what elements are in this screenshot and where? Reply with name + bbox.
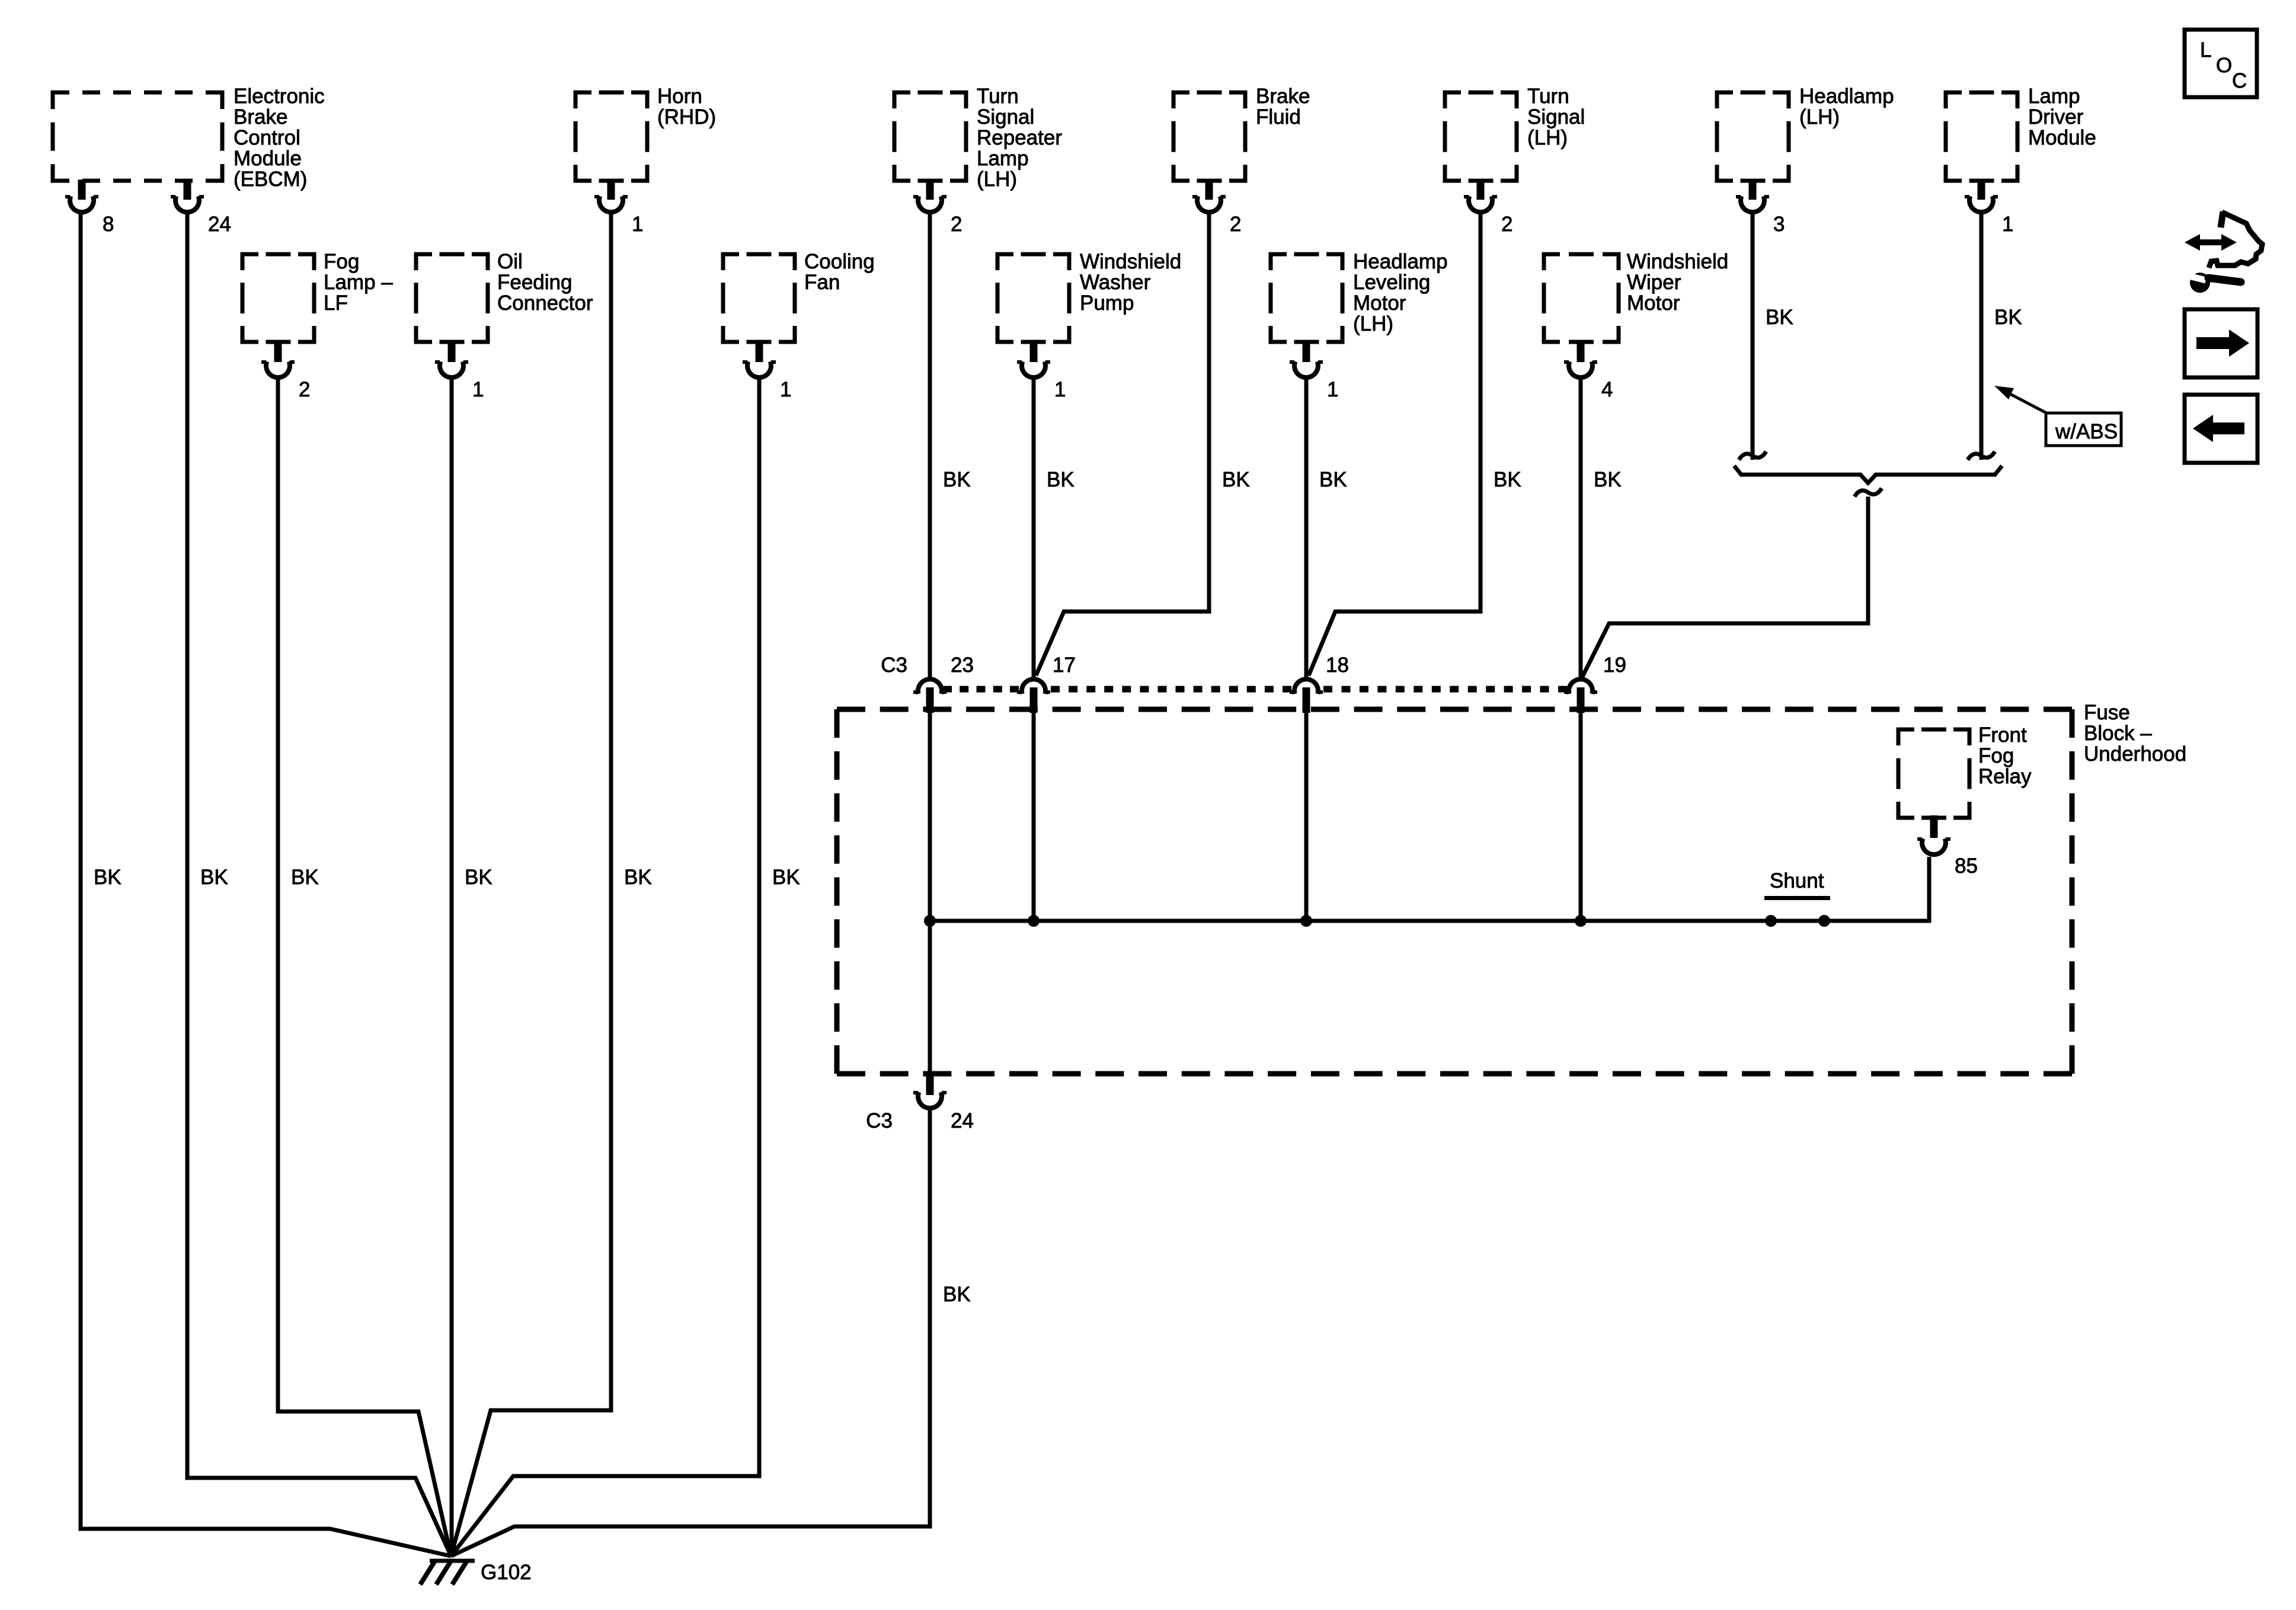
- svg-text:Windshield: Windshield: [1080, 250, 1181, 273]
- svg-text:L: L: [2200, 39, 2211, 62]
- svg-text:1: 1: [780, 378, 791, 401]
- svg-text:BK: BK: [94, 866, 121, 889]
- svg-text:24: 24: [208, 213, 231, 236]
- svg-text:Connector: Connector: [497, 292, 593, 315]
- svg-text:Pump: Pump: [1080, 292, 1134, 315]
- svg-text:BK: BK: [291, 866, 319, 889]
- svg-text:1: 1: [1327, 378, 1338, 401]
- svg-text:Horn: Horn: [657, 85, 702, 108]
- svg-text:2: 2: [299, 378, 310, 401]
- svg-text:2: 2: [1230, 213, 1241, 236]
- svg-text:Relay: Relay: [1978, 765, 2032, 788]
- svg-text:(LH): (LH): [977, 168, 1017, 191]
- svg-text:Signal: Signal: [1527, 105, 1585, 129]
- svg-text:BK: BK: [1994, 306, 2022, 329]
- svg-text:2: 2: [1501, 213, 1512, 236]
- svg-text:G102: G102: [481, 1561, 532, 1584]
- svg-text:Oil: Oil: [497, 250, 523, 273]
- svg-text:LF: LF: [324, 292, 348, 315]
- svg-text:BK: BK: [1047, 468, 1075, 491]
- svg-text:Fog: Fog: [324, 250, 359, 273]
- svg-text:w/ABS: w/ABS: [2055, 420, 2118, 443]
- svg-text:Turn: Turn: [1527, 85, 1569, 108]
- svg-text:2: 2: [951, 213, 962, 236]
- svg-text:Headlamp: Headlamp: [1799, 85, 1894, 108]
- svg-text:18: 18: [1326, 654, 1349, 677]
- svg-text:(LH): (LH): [1353, 312, 1393, 335]
- svg-text:17: 17: [1053, 654, 1076, 677]
- svg-text:Repeater: Repeater: [977, 126, 1062, 149]
- svg-text:Control: Control: [234, 126, 300, 149]
- svg-text:1: 1: [472, 378, 484, 401]
- svg-text:24: 24: [951, 1109, 974, 1132]
- svg-text:Lamp: Lamp: [977, 147, 1029, 170]
- svg-text:C: C: [2232, 69, 2247, 92]
- svg-text:Fan: Fan: [804, 271, 840, 294]
- svg-text:O: O: [2216, 54, 2232, 77]
- svg-text:Lamp –: Lamp –: [324, 271, 393, 294]
- svg-text:C3: C3: [866, 1109, 893, 1132]
- svg-text:Electronic: Electronic: [234, 85, 325, 108]
- svg-text:BK: BK: [200, 866, 228, 889]
- svg-text:Washer: Washer: [1080, 271, 1151, 294]
- svg-text:Module: Module: [234, 147, 302, 170]
- svg-text:(RHD): (RHD): [657, 105, 716, 129]
- svg-text:Underhood: Underhood: [2084, 742, 2186, 766]
- svg-text:BK: BK: [624, 866, 652, 889]
- svg-text:1: 1: [2002, 213, 2013, 236]
- svg-text:Motor: Motor: [1353, 292, 1406, 315]
- svg-text:Front: Front: [1978, 724, 2027, 747]
- svg-text:Module: Module: [2028, 126, 2096, 149]
- svg-text:BK: BK: [1494, 468, 1521, 491]
- svg-text:Lamp: Lamp: [2028, 85, 2080, 108]
- svg-text:Fuse: Fuse: [2084, 701, 2130, 724]
- svg-text:Wiper: Wiper: [1627, 271, 1681, 294]
- svg-text:Brake: Brake: [234, 105, 287, 129]
- svg-text:85: 85: [1955, 854, 1978, 878]
- svg-text:Signal: Signal: [977, 105, 1034, 129]
- svg-text:(LH): (LH): [1799, 105, 1840, 129]
- svg-text:BK: BK: [1594, 468, 1622, 491]
- svg-text:Motor: Motor: [1627, 292, 1680, 315]
- svg-text:Block –: Block –: [2084, 722, 2152, 745]
- svg-text:23: 23: [951, 654, 974, 677]
- svg-text:BK: BK: [1319, 468, 1347, 491]
- svg-text:Brake: Brake: [1256, 85, 1310, 108]
- svg-text:19: 19: [1603, 654, 1626, 677]
- svg-text:Fluid: Fluid: [1256, 105, 1301, 129]
- svg-text:BK: BK: [943, 1283, 971, 1306]
- svg-text:Driver: Driver: [2028, 105, 2084, 129]
- svg-text:BK: BK: [1766, 306, 1793, 329]
- svg-text:(LH): (LH): [1527, 126, 1568, 149]
- svg-text:Headlamp: Headlamp: [1353, 250, 1448, 273]
- svg-text:Leveling: Leveling: [1353, 271, 1430, 294]
- svg-text:(EBCM): (EBCM): [234, 168, 307, 191]
- svg-text:BK: BK: [1222, 468, 1250, 491]
- svg-text:1: 1: [632, 213, 643, 236]
- svg-text:BK: BK: [943, 468, 971, 491]
- svg-text:Cooling: Cooling: [804, 250, 875, 273]
- svg-text:C3: C3: [881, 654, 907, 677]
- svg-text:3: 3: [1773, 213, 1785, 236]
- svg-text:BK: BK: [772, 866, 800, 889]
- svg-text:8: 8: [103, 213, 114, 236]
- svg-text:Turn: Turn: [977, 85, 1019, 108]
- svg-text:BK: BK: [465, 866, 493, 889]
- svg-text:Shunt: Shunt: [1770, 869, 1824, 892]
- svg-text:Windshield: Windshield: [1627, 250, 1728, 273]
- svg-text:Feeding: Feeding: [497, 271, 572, 294]
- svg-text:Fog: Fog: [1978, 744, 2014, 767]
- svg-text:1: 1: [1054, 378, 1066, 401]
- svg-text:4: 4: [1601, 378, 1613, 401]
